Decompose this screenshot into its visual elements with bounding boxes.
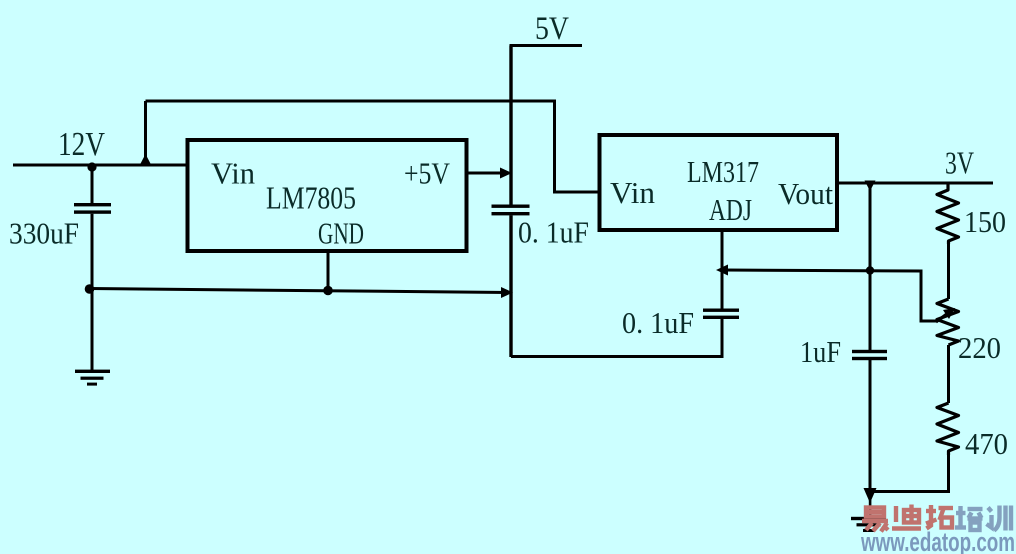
svg-text:Vin: Vin: [610, 175, 656, 210]
node: GND pin junction: [323, 286, 333, 296]
svg-text:0. 1uF: 0. 1uF: [518, 215, 589, 250]
IC U2 LM317: [600, 135, 838, 230]
resistor 150: [937, 183, 959, 244]
pot wiper arrow: [936, 308, 955, 322]
svg-text:GND: GND: [318, 216, 364, 251]
wire: bottom return: [870, 455, 949, 492]
watermark: 培: [955, 506, 983, 530]
svg-text:150: 150: [964, 204, 1006, 239]
svg-text:0. 1uF: 0. 1uF: [622, 305, 694, 340]
resistor 470: [937, 403, 959, 455]
wire: 12V input rail: [13, 164, 189, 167]
capacitor 0.1uF input bypass: [492, 205, 530, 216]
svg-text:5V: 5V: [535, 11, 569, 47]
wire: 220 to 470: [947, 345, 950, 403]
capacitor 330uF: [74, 203, 111, 214]
wire: 330uF top lead: [91, 167, 94, 204]
svg-text:330uF: 330uF: [9, 216, 79, 251]
ground (left): [75, 370, 110, 386]
wire: bypass cap lower lead: [509, 215, 512, 357]
ground arrow: [864, 488, 877, 517]
svg-text:Vin: Vin: [211, 156, 255, 191]
node: ground rail left junction: [85, 284, 95, 294]
svg-text:12V: 12V: [58, 126, 105, 163]
svg-text:www.edatop.com: www.edatop.com: [860, 527, 1015, 554]
wire: gnd link to ADJ cap: [511, 316, 722, 357]
node: ADJ junction arrow: [716, 265, 728, 276]
wire: ADJ to pot wiper: [724, 270, 937, 321]
wire: +5V pin to 5V bus: [466, 172, 505, 175]
watermark: 迪: [892, 505, 921, 529]
svg-text:+5V: +5V: [404, 156, 451, 191]
ground (right): [851, 517, 886, 532]
svg-text:220: 220: [958, 330, 1001, 365]
node: output junction: [865, 181, 876, 192]
watermark: 易: [862, 508, 888, 532]
wire: 1uF lower lead: [869, 360, 872, 490]
node: top feed junction: [139, 154, 152, 167]
svg-text:1uF: 1uF: [800, 334, 841, 369]
watermark: 训: [987, 506, 1012, 531]
svg-text:LM317: LM317: [687, 154, 759, 189]
svg-text:LM7805: LM7805: [266, 180, 356, 216]
node: ADJ line crossing: [866, 266, 874, 274]
power tick 5V: [510, 44, 583, 47]
potentiometer 220: [937, 299, 959, 345]
wire: ground rail: [90, 289, 509, 293]
IC U1 LM7805: [188, 140, 467, 251]
svg-text:470: 470: [965, 426, 1008, 461]
svg-text:Vout: Vout: [778, 176, 833, 211]
wire: 150 to 220: [947, 244, 950, 299]
wire: 330uF bottom lead: [91, 214, 94, 371]
svg-text:3V: 3V: [945, 145, 974, 181]
wire: U1 GND pin: [327, 251, 330, 290]
svg-text:ADJ: ADJ: [709, 192, 752, 227]
wire: U2 ADJ pin: [721, 230, 724, 310]
node: 330uF tap junction: [87, 162, 96, 171]
node: rail end arrow: [501, 287, 513, 298]
wire: top rail to LM317 Vin: [146, 101, 601, 192]
node: +5V junction arrow: [500, 168, 512, 179]
wire: 5V bus vertical: [509, 46, 512, 205]
wire: output cap branch: [869, 184, 872, 351]
watermark: 拓: [926, 505, 953, 529]
capacitor 0.1uF (ADJ): [703, 309, 739, 320]
wire: riser to top rail: [144, 101, 147, 164]
wire: Vout 3V line: [837, 182, 993, 185]
capacitor 1uF: [852, 350, 887, 360]
